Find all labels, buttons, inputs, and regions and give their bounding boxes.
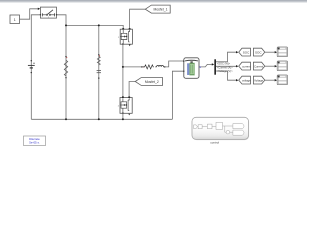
wire: breaker right terminal to top bus and down left load branch: [57, 15, 124, 120]
mini branch wire down: [225, 126, 226, 132]
arrowhead at breaker control input: [38, 8, 40, 10]
series RC snubber branch: resistor R2: [97, 54, 100, 65]
svg-text:control: control: [210, 140, 219, 144]
mini wire 3: [212, 125, 216, 127]
junction node: bottom bus / load branch: [65, 118, 67, 120]
From tag SOC: [253, 48, 264, 56]
resistor R1 (load branch): [64, 56, 67, 79]
scope SOC: [277, 47, 287, 57]
junction node: RL tap on MOSFET leg: [122, 66, 124, 68]
Goto tag voltage: [239, 76, 251, 84]
mini outport tag A: [233, 124, 244, 129]
arrowhead at Goto SOC: [236, 51, 238, 53]
arrowhead at bus selector input: [212, 63, 214, 65]
junction node: top bus / RC branch: [98, 24, 100, 26]
svg-text:Current: Current: [254, 64, 263, 68]
svg-text:<SOC (%)>: <SOC (%)>: [217, 61, 231, 65]
wire: battery m output to bus selector: [199, 64, 212, 67]
arrowhead scope3: [275, 79, 277, 81]
svg-text:2: 2: [118, 105, 120, 107]
wire: bus selector out1 to Goto SOC: [216, 52, 237, 62]
svg-text:Voltage: Voltage: [254, 78, 263, 82]
wire: constant to breaker control input: [20, 9, 39, 19]
scope voltage: [277, 75, 287, 85]
svg-text:<Current (A)>: <Current (A)>: [217, 65, 233, 69]
From tag current: [253, 62, 264, 70]
wire: MOSFET2 source to bottom bus: [122, 113, 124, 119]
svg-text:voltage: voltage: [242, 78, 251, 82]
svg-text:5e-05 s.: 5e-05 s.: [29, 140, 40, 144]
junction node: top bus / left load branch: [65, 24, 67, 26]
mini wire 5: [230, 131, 233, 133]
junction node: bottom bus / RC branch: [98, 118, 100, 120]
MOSFET Q2: [118, 96, 133, 115]
DC voltage source V1 on left branch: [28, 60, 35, 73]
wire: RC snubber branch vertical: [98, 25, 100, 119]
breaker left port: [40, 14, 41, 15]
mini block 2: [207, 124, 212, 129]
breaker right port: [56, 14, 57, 15]
breaker CB1: [40, 7, 56, 19]
From tag voltage: [253, 76, 264, 84]
svg-text:m: m: [199, 67, 201, 69]
svg-text:Mosfet_2: Mosfet_2: [145, 80, 159, 84]
wire: battery minus to bottom bus: [172, 71, 183, 119]
mini wire 4: [223, 125, 233, 127]
inductor L1 (RL branch): [155, 65, 165, 67]
resistor R3 (RL branch): [141, 65, 154, 69]
junction node: bottom bus / MOSFET2 source: [122, 118, 124, 120]
mini sum circle: [226, 130, 230, 134]
wire: bus selector out3 to Goto voltage: [216, 71, 237, 80]
wire: From tag Mosfet_2 to MOSFET2 gate: [129, 82, 135, 97]
bus selector: [214, 59, 233, 74]
wire: MOSFET1 source to MOSFET2 drain: [122, 44, 124, 97]
mini From tag: [194, 125, 198, 129]
wire: breaker left terminal down to bottom bus: [31, 15, 40, 120]
subsystem "control": [192, 117, 249, 144]
arrowhead scope2: [275, 65, 277, 67]
toolbar shadow band at top of canvas: [0, 0, 307, 3]
mini outport tag B: [233, 130, 244, 135]
mini wire 2: [202, 126, 207, 128]
From tag Mosfet_1: [145, 5, 170, 13]
wire: From voltage to scope3: [265, 79, 275, 81]
wire: From tag Mosfet_1 to MOSFET1 gate: [130, 9, 146, 28]
wire: bottom bus: [31, 118, 172, 120]
powergui block (Discrete): [24, 136, 46, 146]
wire: From SOC to scope1: [265, 51, 275, 53]
Goto tag SOC: [239, 48, 251, 56]
MOSFET Q1: [118, 28, 133, 46]
mini block 1: [198, 125, 202, 129]
constant block "1": [10, 15, 20, 24]
arrowhead at Goto current: [236, 65, 238, 67]
scope current: [277, 61, 287, 71]
mini wire 1: [196, 126, 199, 128]
Goto tag current: [239, 62, 251, 70]
battery B1: [183, 58, 201, 79]
svg-text:Mosfet_1: Mosfet_1: [154, 7, 168, 11]
wire: bus selector out2 to Goto current: [216, 65, 237, 67]
From tag Mosfet_2: [135, 78, 162, 86]
svg-text:SOC: SOC: [255, 50, 262, 54]
svg-text:SOC: SOC: [243, 50, 250, 54]
svg-text:1: 1: [118, 37, 120, 39]
arrowhead at Goto voltage: [236, 79, 238, 81]
svg-text:1: 1: [14, 18, 16, 22]
series RC snubber branch: capacitor C1: [97, 71, 101, 79]
wire: From current to scope2: [265, 65, 275, 67]
svg-text:s: s: [48, 17, 49, 19]
svg-text:<Voltage (V)>: <Voltage (V)>: [217, 69, 233, 73]
mini block 3: [216, 122, 223, 129]
arrowhead scope1: [275, 51, 277, 53]
svg-text:current: current: [242, 64, 251, 68]
wire: RL branch to battery plus: [123, 61, 184, 67]
